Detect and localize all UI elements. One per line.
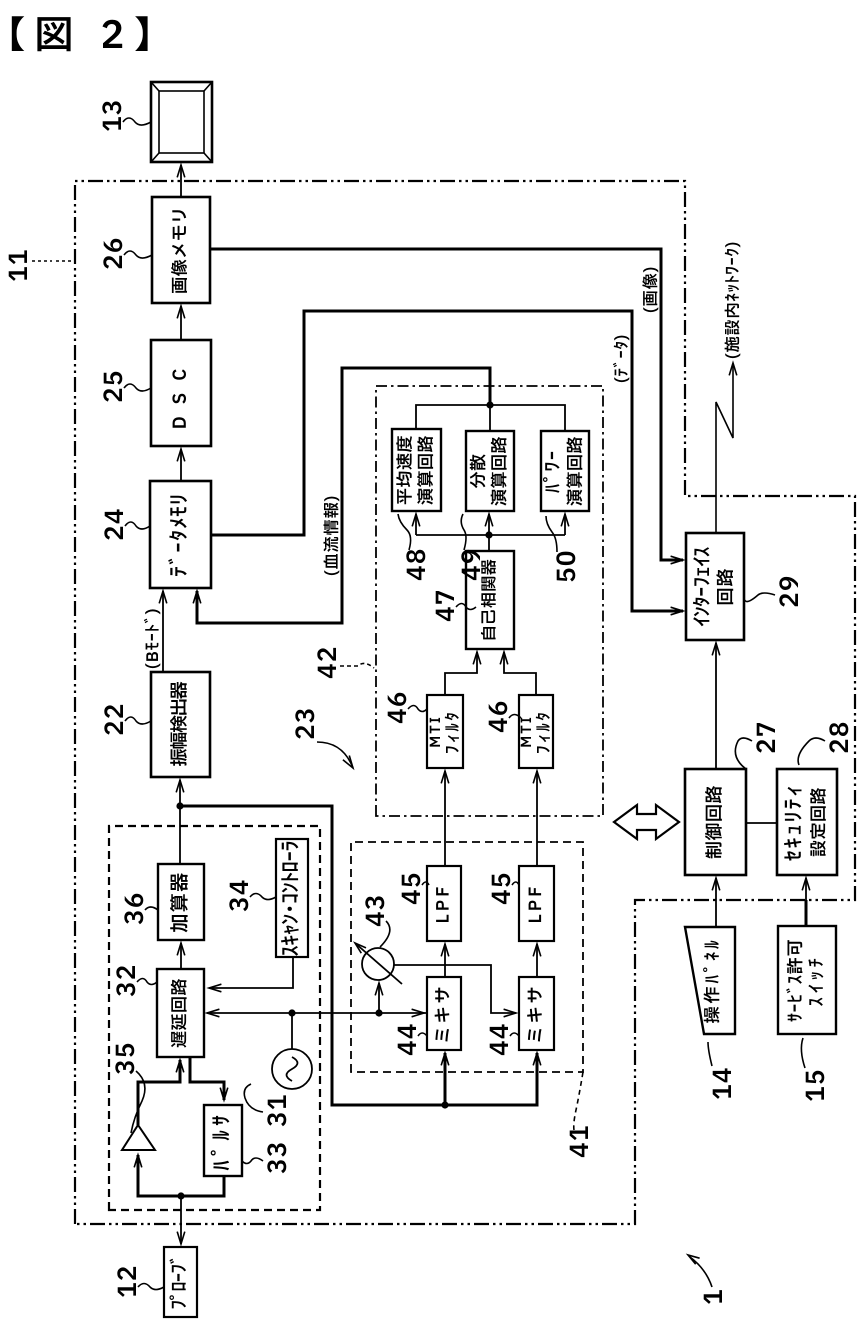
box: delay circuit 32	[157, 969, 204, 1057]
amplifier 35 (triangle)	[122, 1125, 155, 1150]
wire: control circuit 27 to interface 29	[712, 643, 720, 769]
box: power calc circuit 50	[541, 431, 589, 511]
dashed box: transmit/receive section 23	[109, 826, 320, 1210]
wire: service switch 15 to security 28	[805, 900, 808, 926]
hollow double-headed arrow (control bus)	[614, 805, 679, 839]
box: variance calc circuit 49	[466, 431, 514, 511]
trapezoid box: operation panel 14	[685, 927, 735, 1034]
arrow into 49	[485, 514, 493, 535]
label 50	[546, 516, 575, 582]
wire: blood-flow information to data memory 24	[193, 368, 490, 623]
wire: interface 29 to facility network with break symbol	[716, 363, 737, 533]
box: LPF 45 (upper)	[427, 866, 461, 941]
wire: DSC 25 to image memory 26	[177, 306, 185, 340]
wire: bus to calc circuits 48-50	[416, 534, 565, 536]
box: probe 12	[164, 1247, 197, 1317]
arrowhead into mixer 44 upper	[412, 1009, 424, 1017]
label 45 upper	[402, 874, 429, 904]
label 35	[115, 1044, 145, 1133]
wire: calc outputs collect bus	[416, 401, 565, 431]
label 36	[124, 894, 158, 925]
label 43	[365, 896, 390, 947]
annotation (data)	[613, 336, 629, 383]
wire: data output to interface 29	[211, 311, 683, 615]
label 33	[242, 1143, 286, 1173]
wire: T/R loop pulser output to amplifier input	[134, 1155, 224, 1196]
wire: amplifier 35 to delay circuit 32	[138, 1060, 184, 1125]
box: scan controller 34	[276, 839, 308, 957]
box: MTI filter 46 (upper)	[427, 695, 463, 768]
dotted leader for label 42	[340, 663, 374, 668]
box: mean velocity calc circuit 48	[392, 429, 441, 511]
wire: data memory 24 to DSC 25	[177, 449, 185, 481]
label 48	[398, 514, 425, 580]
wire: 49 output to bus	[489, 405, 491, 431]
wire: MTI 46 upper to autocorrelator 47	[445, 652, 481, 695]
box: DSC 25	[151, 340, 211, 446]
box: LPF 45 (lower)	[519, 866, 554, 941]
label 44 upper	[398, 1024, 427, 1055]
label 45 lower	[492, 874, 519, 904]
dash-dot box: doppler processing section 42	[376, 386, 603, 816]
annotation (B mode)	[144, 609, 160, 668]
box: service permission switch 15	[778, 926, 836, 1034]
figure title 【図 2】	[12, 16, 148, 51]
label 12	[117, 1267, 164, 1297]
wire: mixer 44 lower to LPF 45 lower	[533, 944, 541, 977]
box: image memory 26	[152, 197, 210, 303]
dash-dot boundary of apparatus main unit 11	[75, 181, 855, 1224]
label 34	[229, 881, 276, 912]
label 28	[798, 723, 848, 765]
wire: phase shifter 43 to mixer 44 lower	[394, 965, 516, 1017]
annotation (facility network)	[725, 243, 741, 359]
label 41	[570, 1126, 588, 1157]
box: security setting circuit 28	[777, 769, 837, 875]
wire: LPF 45 lower to MTI filter 46 lower	[533, 771, 541, 866]
wire: delay circuit 32 to adder 36	[177, 943, 185, 969]
wire: mixer 44 upper to LPF 45 upper	[441, 944, 449, 977]
label 46 lower	[489, 702, 521, 732]
monitor 13 (CRT symbol)	[151, 82, 212, 162]
arrow 15 to 28	[802, 878, 810, 900]
wire: branch to phase shifter 43	[375, 983, 383, 1013]
oscillator 31 (circle with sine)	[272, 1049, 312, 1089]
label 47	[436, 591, 476, 621]
label 42	[317, 648, 336, 678]
dotted leader for label 11	[32, 260, 74, 262]
wire: image output to interface 29	[210, 249, 683, 564]
wire: LPF 45 upper to MTI filter 46 upper	[441, 771, 449, 866]
label 46 upper	[388, 693, 427, 723]
box: pulser 33	[204, 1105, 242, 1176]
dashed box: quadrature detector section 41	[351, 842, 583, 1072]
wire: control 27 - security 28 link	[746, 822, 777, 824]
wire: scan controller 34 to delay circuit 32	[209, 957, 293, 992]
label 14	[708, 1042, 731, 1099]
label 22	[104, 705, 151, 735]
label 15	[801, 1038, 824, 1101]
label 11	[9, 250, 27, 281]
arrow into 48	[412, 514, 420, 535]
wire: B-mode amplitude to data memory 24	[159, 591, 167, 672]
label 49	[461, 514, 480, 580]
label 32	[116, 966, 157, 996]
box: autocorrelator 47	[466, 551, 514, 649]
dashed leader for label 41	[574, 1072, 583, 1130]
label 31	[244, 1084, 286, 1126]
wire: junction to probe 12	[177, 1192, 185, 1244]
box: interface circuit 29	[686, 533, 744, 640]
phase shifter 43 (circle with arrow)	[355, 943, 402, 984]
wire: oscillator 31 reference line	[291, 1013, 293, 1049]
wire: branch into mixer 44 upper	[441, 1053, 449, 1105]
label 23	[295, 709, 314, 738]
label 25	[103, 372, 151, 402]
label 27	[735, 723, 775, 769]
box: MTI filter 46 (lower)	[519, 695, 553, 768]
box: data memory 24	[150, 481, 211, 588]
label 13	[102, 101, 151, 131]
label 44 lower	[490, 1024, 519, 1055]
annotation (blood flow info)	[323, 497, 339, 576]
wire: adder 36 to amplitude detector 22	[176, 780, 184, 864]
box: mixer 44 (upper)	[427, 977, 461, 1050]
wire: autocorrelator 47 output bus	[485, 531, 492, 551]
label 24	[104, 509, 150, 539]
wire: image memory 26 to monitor 13	[177, 165, 185, 197]
curved arrow for label 23	[317, 742, 353, 768]
wire: delay circuit 32 to pulser 33	[190, 1057, 228, 1100]
arrow into 50	[561, 514, 569, 535]
label 26	[103, 239, 152, 269]
box: amplitude detector 22	[151, 672, 210, 777]
curved arrow for label 1	[688, 1255, 712, 1287]
box: adder 36	[158, 864, 204, 940]
wire: operation panel 14 to control 27	[712, 878, 720, 927]
annotation (image)	[642, 268, 658, 313]
wire: received signal branch to mixers	[180, 806, 541, 1109]
box: control circuit 27	[685, 769, 746, 875]
wire: MTI 46 lower to autocorrelator 47	[500, 652, 536, 695]
label 1	[704, 1290, 722, 1304]
label 29	[744, 577, 798, 607]
wire: oscillator bus to delay 32 and mixer 44	[207, 1009, 427, 1017]
box: mixer 44 (lower)	[519, 977, 554, 1050]
